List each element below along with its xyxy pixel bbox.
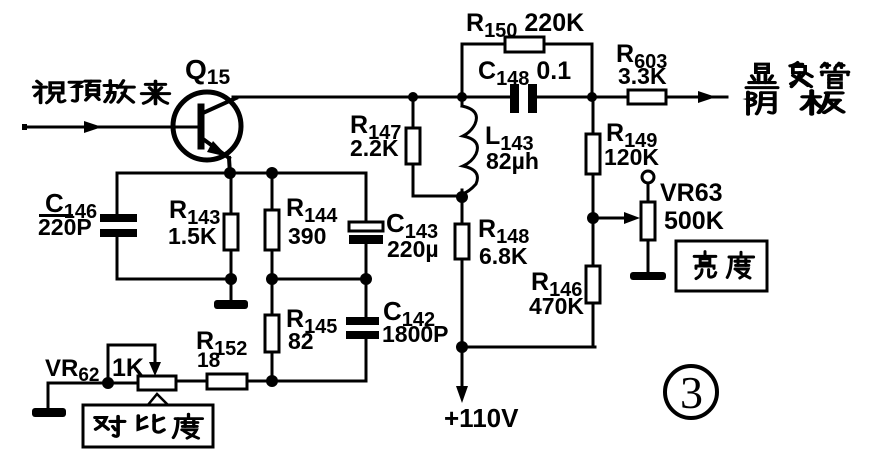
resistor R147 bbox=[406, 97, 462, 196]
node R144 top junction bbox=[266, 167, 278, 179]
node +110V rail junction bbox=[456, 341, 468, 353]
ground R143 bbox=[214, 300, 248, 309]
svg-text:6.8K: 6.8K bbox=[479, 243, 528, 269]
svg-text:220µ: 220µ bbox=[387, 236, 439, 262]
wire collector rail bbox=[233, 96, 512, 99]
potentiometer VR62 bbox=[108, 345, 176, 390]
svg-text:3: 3 bbox=[680, 367, 703, 418]
label output line2: yin ban (cathode) bbox=[748, 91, 843, 115]
capacitor C148 bbox=[510, 84, 537, 113]
node R143 bottom junction bbox=[225, 273, 237, 285]
wire input line from video preamp bbox=[22, 124, 174, 130]
svg-text:VR63: VR63 bbox=[660, 179, 723, 207]
svg-text:390: 390 bbox=[288, 223, 326, 249]
wire R144-C143 bottom rail bbox=[272, 278, 366, 281]
capacitor C142 bbox=[346, 279, 379, 381]
node L143 bottom junction bbox=[456, 191, 468, 203]
resistor R146 bbox=[586, 218, 600, 347]
CJK TEXT bbox=[34, 63, 849, 439]
node C143 bottom junction bbox=[360, 273, 372, 285]
resistor R144 bbox=[265, 173, 279, 279]
svg-text:82: 82 bbox=[288, 328, 314, 354]
wire +110V feed bbox=[461, 347, 464, 390]
wire left bias rail bbox=[117, 278, 231, 281]
capacitor C146 bbox=[100, 173, 137, 279]
svg-text:3.3K: 3.3K bbox=[618, 63, 667, 89]
svg-text:+110V: +110V bbox=[444, 403, 519, 433]
ground VR63 bbox=[630, 272, 666, 280]
node R145 bottom junction bbox=[266, 375, 278, 387]
label brightness: liang du bbox=[694, 252, 753, 279]
VR62 wiper arrowhead bbox=[149, 362, 161, 376]
svg-text:120K: 120K bbox=[604, 144, 659, 170]
node output junction bbox=[587, 92, 597, 102]
wire bottom supply rail bbox=[462, 346, 595, 349]
page number circle 3 bbox=[665, 366, 717, 418]
resistor R152 bbox=[207, 374, 247, 389]
transistor Q15 bbox=[173, 92, 241, 174]
callout box brightness bbox=[676, 241, 767, 291]
inductor L143 bbox=[462, 97, 477, 200]
svg-text:2.2K: 2.2K bbox=[350, 135, 399, 161]
resistor R143 bbox=[224, 173, 238, 300]
label input: shi yu fang lai (from video preamp) bbox=[34, 81, 170, 104]
resistor R148 bbox=[455, 200, 469, 347]
wire contrast rail bbox=[247, 380, 366, 383]
resistor R149 bbox=[586, 97, 600, 218]
wire VR62 to ground bbox=[48, 383, 108, 409]
VR63 wiper arrowhead bbox=[624, 212, 640, 224]
wire VR63 wiper arm bbox=[593, 217, 625, 220]
svg-text:220P: 220P bbox=[38, 214, 92, 240]
svg-text:1.5K: 1.5K bbox=[168, 223, 217, 249]
label contrast: dui bi du bbox=[95, 414, 202, 438]
wire C148 to output node bbox=[537, 96, 628, 99]
label output: xian xiang guan (CRT) bbox=[746, 63, 848, 88]
svg-text:1K: 1K bbox=[112, 354, 144, 382]
node R147 top junction bbox=[408, 92, 418, 102]
svg-text:500K: 500K bbox=[664, 207, 724, 235]
label C146 value 220P bbox=[39, 214, 73, 217]
svg-text:470K: 470K bbox=[529, 293, 584, 319]
resistor R603 bbox=[628, 90, 666, 104]
resistor R150 bbox=[505, 37, 544, 52]
wire R150 branch bbox=[462, 44, 592, 97]
svg-text:1800P: 1800P bbox=[382, 321, 449, 347]
+110V arrowhead bbox=[456, 386, 468, 403]
capacitor C143 bbox=[349, 173, 383, 279]
callout box contrast bbox=[83, 405, 213, 447]
node emitter junction bbox=[224, 167, 236, 179]
node VR62 junction bbox=[102, 377, 114, 389]
svg-text:82µh: 82µh bbox=[486, 148, 539, 174]
wire to CRT cathode bbox=[666, 96, 727, 99]
ground VR62 bbox=[32, 408, 66, 417]
input arrowhead bbox=[84, 121, 102, 133]
svg-text:18: 18 bbox=[197, 349, 221, 372]
callout pointer contrast bbox=[147, 394, 167, 406]
potentiometer VR63 bbox=[641, 171, 655, 272]
node L143 top junction bbox=[457, 92, 467, 102]
wire R152 to VR62 bbox=[176, 380, 207, 383]
output arrowhead bbox=[698, 91, 716, 103]
resistor R145 bbox=[265, 279, 279, 381]
node VR63 wiper junction bbox=[587, 212, 599, 224]
wire emitter rail bbox=[117, 172, 366, 175]
node R145 top junction bbox=[266, 273, 278, 285]
